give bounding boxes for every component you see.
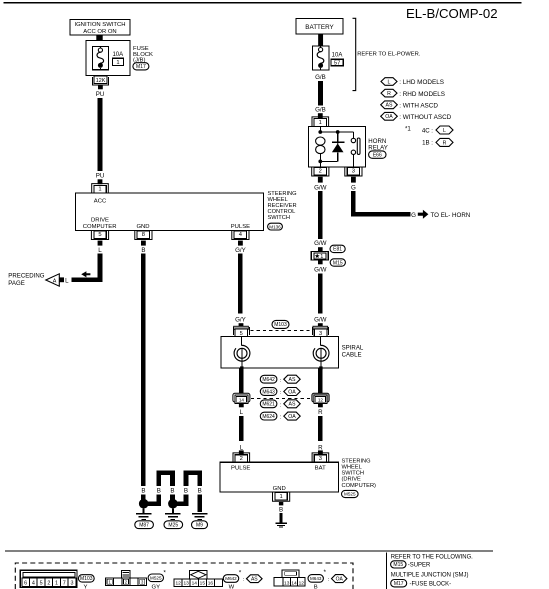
wire B to junction: [141, 495, 146, 504]
label STEERING WHEEL SWITCH (DRIVE COMPUTER): [342, 458, 377, 488]
svg-text:: LHD MODELS: : LHD MODELS: [399, 79, 444, 86]
svg-text:PU: PU: [96, 91, 105, 98]
fuse 57 10A: [313, 46, 329, 70]
wire stub below *1: [318, 260, 323, 264]
wire stub above pin 1: [98, 179, 103, 184]
footer connector M642 pinout: [174, 571, 222, 587]
svg-text:G/Y: G/Y: [235, 247, 246, 254]
label L below conn14: [240, 409, 244, 416]
ground label M25: [164, 521, 183, 529]
label L at preceding page: [65, 278, 69, 285]
spiral symbol left: [234, 336, 250, 369]
spiral cable box: [221, 336, 339, 368]
label B below pin8: [141, 247, 145, 254]
label G/W above *1: [314, 240, 327, 247]
svg-text:13: 13: [184, 581, 190, 587]
bracket refer to el-power: [353, 18, 356, 90]
ignition switch box: [70, 20, 130, 36]
footer connector M525 pinout: [106, 571, 147, 586]
wire B main: [141, 254, 146, 486]
svg-text:AS: AS: [289, 377, 296, 383]
svg-text:AS: AS: [386, 103, 393, 109]
label B below GND: [279, 506, 283, 513]
footer label M17: [391, 580, 451, 588]
footer right divider: [386, 553, 388, 589]
svg-text:M642: M642: [225, 576, 237, 581]
jumper 2 lower right: [197, 494, 202, 512]
svg-text:REFER TO THE FOLLOWING.: REFER TO THE FOLLOWING.: [391, 555, 473, 561]
border top rule: [4, 2, 522, 4]
SMJ connector *1: [311, 251, 328, 260]
svg-text:2: 2: [240, 456, 243, 462]
label PULSE pin4: [231, 224, 250, 230]
svg-text:3: 3: [319, 456, 322, 462]
dashed line conn14 to conn12: [251, 398, 311, 400]
label B jumper1 right: [170, 488, 174, 495]
svg-text:M15: M15: [333, 260, 343, 266]
label G/B upper: [315, 74, 326, 81]
legend badge L: [381, 78, 444, 87]
label DRIVE COMPUTER: [83, 218, 117, 231]
svg-text:ACC OR ON: ACC OR ON: [83, 29, 116, 35]
wire stub below pin 1: [279, 502, 283, 505]
svg-text:4C :: 4C :: [422, 127, 433, 134]
wire G/Y: [238, 254, 243, 314]
label B above junction: [141, 488, 145, 495]
junction dot diode top: [336, 130, 340, 134]
svg-text:OA: OA: [288, 389, 296, 395]
footer label M15: [391, 561, 431, 569]
svg-text:IGNITION SWITCH: IGNITION SWITCH: [74, 22, 125, 28]
ground label M9: [192, 521, 208, 529]
label FUSE BLOCK (J/B): [133, 46, 153, 63]
label HORN RELAY: [368, 138, 388, 151]
legend badge AS: [381, 101, 439, 110]
svg-text:1B :: 1B :: [422, 140, 433, 147]
ground label M87: [135, 521, 154, 529]
label 10A: [112, 52, 123, 58]
label ACC: [94, 198, 107, 204]
svg-text:G/Y: G/Y: [235, 317, 246, 324]
svg-text:E66: E66: [373, 152, 382, 158]
connector pin 4: [232, 230, 249, 239]
title EL-B/COMP-02: [406, 6, 498, 21]
inline connector 14: [233, 393, 250, 403]
svg-text:M525: M525: [150, 575, 162, 580]
label R above pin 3: [318, 444, 323, 451]
svg-text:*1: *1: [405, 126, 411, 133]
label G/B lower: [315, 107, 326, 114]
connector label M103 spiral: [272, 320, 289, 328]
footer connector M103 pinout: [20, 570, 77, 587]
svg-text:PAGE: PAGE: [8, 280, 24, 287]
connector relay pin 1: [312, 117, 329, 126]
label GND pin8: [136, 224, 149, 230]
svg-text:G/W: G/W: [314, 185, 327, 192]
connector pin 8: [135, 230, 152, 239]
label SPIRAL CABLE: [342, 345, 364, 359]
legend badge OA: [381, 112, 452, 121]
connector label E66: [369, 151, 386, 159]
connector switch pin 1 GND: [273, 492, 290, 501]
label G at arrow: [411, 212, 416, 219]
label L below pin5: [98, 247, 102, 254]
wire stub below relay pin 2: [318, 177, 323, 183]
svg-text:G: G: [411, 212, 416, 219]
svg-text:STEERING: STEERING: [342, 458, 371, 464]
junction dot coil top: [318, 130, 322, 134]
svg-text:57: 57: [334, 61, 340, 67]
wire stub above spiral conn 3: [318, 323, 323, 326]
svg-text:8: 8: [142, 232, 145, 238]
wire stub above pin 3: [318, 450, 323, 454]
svg-text:WHEEL: WHEEL: [342, 465, 362, 471]
relay coil: [316, 137, 325, 160]
label G/Y above spiral: [235, 317, 246, 324]
svg-text:COMPUTER): COMPUTER): [342, 483, 377, 489]
svg-text:M136: M136: [269, 224, 281, 229]
wire stub above *1: [318, 247, 323, 251]
svg-text:G/W: G/W: [314, 317, 327, 324]
svg-text:AS: AS: [289, 402, 296, 408]
svg-text:OA: OA: [385, 114, 393, 120]
wire B gnd: [280, 513, 283, 523]
wire G/W lower: [318, 274, 323, 314]
svg-text:ACC: ACC: [94, 198, 107, 204]
svg-text:3: 3: [352, 169, 355, 175]
svg-text:10A: 10A: [332, 52, 343, 58]
svg-text:2: 2: [47, 581, 50, 587]
wire stub below pin 4: [238, 241, 243, 246]
legend 1B R: [422, 138, 453, 146]
legend M643 OA: [260, 388, 300, 397]
connector relay pin 3: [345, 167, 362, 176]
svg-text:B: B: [279, 506, 283, 513]
svg-text:6: 6: [24, 581, 27, 587]
svg-text:5: 5: [40, 581, 43, 587]
legend *1 4C L: [405, 126, 453, 135]
wire stub below conn 14: [239, 404, 244, 408]
connector label E81: [330, 245, 345, 253]
svg-text:R: R: [318, 409, 323, 416]
svg-text:COMPUTER: COMPUTER: [83, 224, 117, 230]
wire R to switch: [318, 416, 323, 441]
connector label M15: [330, 259, 345, 267]
svg-text:W: W: [229, 585, 235, 589]
fuse number 57 box: [331, 59, 343, 66]
svg-text:A: A: [53, 278, 57, 284]
svg-text:: WITHOUT ASCD: : WITHOUT ASCD: [399, 114, 451, 121]
footer REFER TO THE FOLLOWING: [391, 555, 473, 561]
junction dot coil bottom: [318, 160, 322, 164]
footer label M643: [308, 569, 347, 589]
jumper 2 top: [186, 473, 200, 486]
connector pin 5: [91, 230, 108, 239]
wire stub below 12K: [98, 85, 103, 89]
svg-text:B: B: [184, 488, 188, 495]
connector switch pin 2: [233, 453, 250, 462]
wire stub ignition to fuse block: [96, 35, 102, 41]
wire stub below relay pin 3: [351, 177, 356, 183]
connector 12K: [92, 76, 108, 85]
svg-text:B: B: [141, 247, 145, 254]
spiral symbol right: [313, 336, 329, 369]
svg-text:PULSE: PULSE: [231, 465, 250, 471]
svg-text:13: 13: [284, 580, 290, 586]
svg-text:BATTERY: BATTERY: [305, 24, 334, 31]
legend M624 OA: [260, 412, 300, 421]
label BAT: [315, 465, 326, 471]
connector label M17: [133, 63, 149, 70]
svg-text:E81: E81: [333, 247, 342, 253]
svg-text:CONTROL: CONTROL: [268, 209, 296, 215]
svg-text:1: 1: [55, 581, 58, 587]
svg-text:AS: AS: [251, 577, 258, 583]
jumper 2 lower left: [173, 494, 186, 503]
svg-text:M15: M15: [393, 562, 403, 568]
svg-text:RELAY: RELAY: [368, 144, 388, 151]
wire stub below pin 8: [141, 241, 146, 246]
svg-text:PRECEDING: PRECEDING: [8, 273, 44, 280]
svg-text:G/W: G/W: [314, 240, 327, 247]
svg-text:14: 14: [192, 581, 198, 587]
wire R spiral to conn 12: [318, 368, 323, 393]
svg-text:CABLE: CABLE: [342, 352, 362, 359]
connector relay pin 2: [312, 167, 329, 176]
legend badge R: [381, 89, 445, 98]
battery box: [296, 19, 343, 35]
svg-text:12: 12: [175, 581, 181, 587]
svg-text:2: 2: [319, 169, 322, 175]
svg-text:R: R: [387, 91, 391, 97]
footer label M642: [223, 569, 262, 589]
label R below conn12: [318, 409, 323, 416]
relay switch contact: [351, 132, 360, 167]
svg-text:GND: GND: [273, 486, 286, 492]
connector label M136: [268, 223, 283, 230]
svg-text:G: G: [351, 185, 356, 192]
label B jumper2 right: [198, 488, 202, 495]
svg-text:B: B: [198, 488, 202, 495]
svg-text:R: R: [318, 444, 323, 451]
label G/W below relay: [314, 185, 327, 192]
svg-text:GND: GND: [136, 224, 149, 230]
connector label M525 switch: [342, 490, 359, 497]
jumper 1 top: [159, 473, 173, 486]
label GND: [273, 486, 286, 492]
svg-text:14: 14: [239, 397, 245, 402]
svg-text:M525: M525: [344, 492, 356, 497]
svg-text:OA: OA: [336, 576, 344, 582]
label PULSE: [231, 465, 250, 471]
svg-text:4: 4: [32, 581, 35, 587]
ground GND: [275, 523, 287, 527]
svg-text:10A: 10A: [112, 52, 123, 58]
ground M87: [136, 508, 152, 519]
svg-text:SWITCH: SWITCH: [342, 471, 364, 477]
wire stub above spiral conn 5: [239, 323, 244, 326]
svg-text:PU: PU: [96, 172, 105, 179]
steering wheel receiver control switch box: [76, 193, 264, 230]
svg-text:M17: M17: [136, 64, 146, 70]
footer dashed box: [15, 563, 353, 589]
label PRECEDING PAGE: [8, 273, 44, 287]
svg-text:PULSE: PULSE: [231, 224, 250, 230]
svg-text:(DRIVE: (DRIVE: [342, 477, 361, 483]
relay internal wire bottom: [320, 161, 337, 166]
footer label M525: [148, 569, 166, 589]
relay internal wire top: [320, 126, 353, 132]
wire stub battery to fuse: [318, 34, 323, 46]
svg-text:M643: M643: [262, 389, 275, 395]
svg-text:L: L: [388, 79, 391, 85]
label G below relay: [351, 185, 356, 192]
label TO EL-HORN: [431, 212, 471, 219]
steering wheel switch box: [220, 462, 339, 492]
svg-text:M25: M25: [168, 523, 178, 529]
svg-text:L: L: [98, 247, 102, 254]
svg-text:G/W: G/W: [314, 267, 327, 274]
inline connector 12: [312, 393, 329, 403]
svg-text:DRIVE: DRIVE: [91, 218, 109, 224]
label 10A battery: [332, 52, 343, 58]
dashed line conn5 to conn3: [251, 330, 312, 332]
svg-text:SWITCH: SWITCH: [268, 215, 290, 221]
wire G to el-horn: [353, 191, 410, 214]
spiral connector 3: [313, 326, 329, 337]
wire stub below conn 12: [318, 404, 323, 408]
svg-text:12: 12: [318, 397, 324, 402]
svg-text:M621: M621: [262, 402, 275, 408]
label B jumper2 left: [184, 488, 188, 495]
wire stub above relay pin 1: [318, 113, 323, 118]
svg-text:12K: 12K: [96, 78, 106, 84]
svg-text:EL-B/COMP-02: EL-B/COMP-02: [406, 6, 498, 21]
svg-text:Y: Y: [84, 585, 88, 589]
svg-text:R: R: [443, 140, 447, 146]
svg-text:: RHD MODELS: : RHD MODELS: [399, 91, 445, 98]
wire G/B: [318, 81, 323, 106]
label G/W above spiral: [314, 317, 327, 324]
label B jumper1 left: [157, 488, 161, 495]
wire L to preceding page: [71, 254, 100, 280]
svg-text:1: 1: [98, 187, 101, 193]
svg-text:L: L: [240, 444, 244, 451]
ground M9: [192, 514, 208, 520]
svg-text:G/B: G/B: [315, 74, 326, 81]
terminal square L: [59, 277, 64, 282]
svg-text:5: 5: [98, 232, 101, 238]
svg-text:L: L: [240, 409, 244, 416]
svg-text:STEERING: STEERING: [268, 191, 297, 197]
wire L spiral to conn 14: [239, 368, 244, 393]
svg-text:1: 1: [319, 120, 322, 126]
svg-text:M103: M103: [274, 322, 287, 328]
wire stub below pin 5: [98, 241, 103, 246]
ground M25: [165, 508, 181, 519]
svg-text:7: 7: [63, 581, 66, 587]
footer MULTIPLE JUNCTION: [391, 572, 469, 578]
wire G/W upper: [318, 191, 323, 239]
svg-text:MULTIPLE JUNCTION (SMJ): MULTIPLE JUNCTION (SMJ): [391, 572, 469, 578]
label PU upper: [96, 91, 105, 98]
legend M642 AS: [260, 375, 300, 384]
svg-text:B: B: [157, 488, 161, 495]
svg-text:15: 15: [200, 581, 206, 587]
svg-text:16: 16: [208, 581, 214, 587]
label STEERING WHEEL RECEIVER CONTROL SWITCH: [268, 191, 297, 221]
svg-text:WHEEL: WHEEL: [268, 197, 288, 203]
jumper 1 lower left: [144, 494, 159, 503]
svg-text:-SUPER: -SUPER: [408, 563, 431, 569]
footer connector M643 pinout: [274, 570, 305, 586]
svg-text:B: B: [141, 488, 145, 495]
svg-text:RECEIVER: RECEIVER: [268, 203, 297, 209]
svg-text:M17: M17: [394, 581, 404, 587]
label PU lower: [96, 172, 105, 179]
arrow to el-horn: [418, 210, 429, 219]
svg-text:REFER TO EL-POWER.: REFER TO EL-POWER.: [357, 52, 421, 58]
svg-text:M624: M624: [262, 414, 275, 420]
jumper 1 lower right: [170, 494, 175, 503]
svg-text:B: B: [170, 488, 174, 495]
connector pin 1 ACC: [92, 184, 109, 193]
direction arrow on L wire: [81, 271, 90, 277]
label G/W below *1: [314, 267, 327, 274]
legend M621 AS: [260, 400, 300, 409]
relay diode D1: [332, 132, 344, 161]
svg-text:M87: M87: [139, 523, 149, 529]
footer separator line: [5, 550, 493, 552]
svg-text:GY: GY: [152, 585, 161, 589]
svg-text:1: 1: [279, 494, 282, 500]
svg-text:SPIRAL: SPIRAL: [342, 345, 364, 352]
svg-text:1: 1: [116, 60, 119, 66]
footer label M103: [78, 575, 94, 589]
svg-text:M643: M643: [310, 576, 322, 581]
svg-text:BAT: BAT: [315, 465, 326, 471]
svg-text:L: L: [65, 278, 69, 285]
svg-text:TO EL- HORN: TO EL- HORN: [431, 212, 471, 219]
fuse 1 10A: [93, 47, 109, 70]
svg-text:OA: OA: [288, 414, 296, 420]
svg-text:: WITH ASCD: : WITH ASCD: [399, 103, 438, 110]
svg-text:M642: M642: [262, 377, 275, 383]
svg-text:14: 14: [291, 580, 297, 586]
svg-text:L: L: [443, 128, 446, 134]
fuse block J/B box: [86, 41, 130, 76]
svg-text:B: B: [314, 585, 318, 589]
label L above pin 2: [240, 444, 244, 451]
wire L to switch: [239, 416, 244, 441]
wire PU: [98, 98, 103, 171]
label G/Y below pin4: [235, 247, 246, 254]
horn relay box E66: [309, 126, 366, 167]
connector switch pin 3: [312, 453, 329, 462]
fuse number 1 box: [113, 58, 124, 66]
svg-text:-FUSE BLOCK-: -FUSE BLOCK-: [410, 582, 452, 588]
preceding page triangle A: [46, 274, 60, 286]
svg-text:3: 3: [70, 581, 73, 587]
svg-text:G/B: G/B: [315, 107, 326, 114]
label REFER TO EL-POWER: [357, 52, 421, 58]
svg-text:12: 12: [299, 580, 305, 586]
junction dot M25: [168, 499, 178, 509]
svg-text:M103: M103: [80, 576, 93, 582]
spiral connector 5: [233, 326, 249, 337]
wire stub above pin 2: [239, 450, 244, 454]
svg-text:1: 1: [320, 254, 323, 260]
